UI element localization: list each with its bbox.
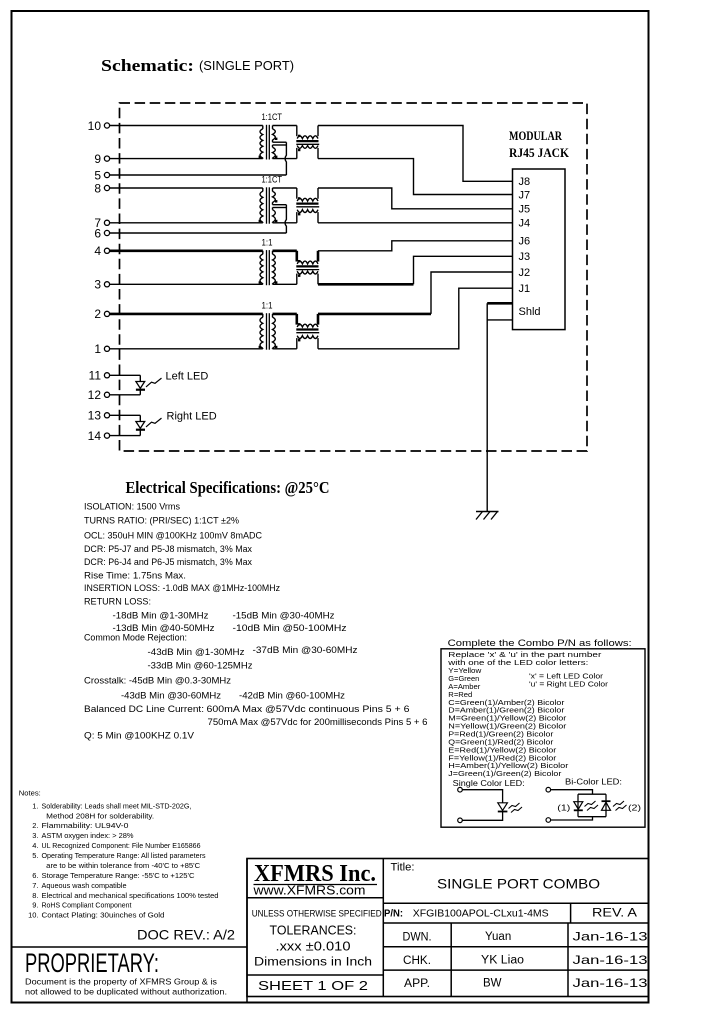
svg-text:6: 6: [94, 226, 101, 240]
line under XFMRS box: [247, 897, 383, 899]
svg-text:10: 10: [88, 119, 102, 133]
divider DWN|name: [450, 923, 452, 997]
svg-text:J7: J7: [519, 189, 531, 201]
svg-text:(1): (1): [557, 803, 570, 813]
svg-text:1:1: 1:1: [262, 300, 273, 310]
T1 secondary top winding: [273, 129, 276, 140]
svg-text:SINGLE PORT COMBO: SINGLE PORT COMBO: [437, 876, 600, 892]
svg-text:SHEET 1 OF 2: SHEET 1 OF 2: [258, 979, 368, 993]
T4 primary stubs: [262, 314, 264, 349]
LED arrow 1: [509, 803, 520, 809]
svg-text:Rise Time: 1.75ns Max.: Rise Time: 1.75ns Max.: [84, 571, 186, 581]
svg-text:Common Mode Rejection:: Common Mode Rejection:: [84, 633, 187, 643]
svg-text:-10dB Min @50-100MHz: -10dB Min @50-100MHz: [233, 623, 347, 633]
svg-text:Document is the property of XF: Document is the property of XFMRS Group …: [25, 977, 217, 986]
choke core line lower: [296, 332, 319, 334]
T2 secondary bottom phase dot: [275, 220, 277, 222]
wire secondary bottom to choke ch3: [273, 283, 297, 285]
svg-text:Dimensions in Inch: Dimensions in Inch: [254, 957, 372, 969]
LED arrow 6: [616, 805, 627, 811]
svg-text:12: 12: [88, 388, 102, 402]
pin terminal 13: [104, 413, 109, 418]
wire choke3 bottom thick segment: [318, 283, 414, 286]
choke core line lower: [296, 206, 319, 208]
T4 secondary phase dot: [275, 346, 277, 348]
LED arrow 2: [511, 807, 522, 813]
svg-text:1:1CT: 1:1CT: [262, 175, 283, 185]
svg-text:-43dB Min @1-30MHz: -43dB Min @1-30MHz: [148, 647, 245, 657]
svg-text:'u' = Right LED Color: 'u' = Right LED Color: [529, 680, 609, 689]
svg-text:Flammability: UL94V-0: Flammability: UL94V-0: [42, 821, 129, 830]
svg-text:Q: 5 Min @100KHZ 0.1V: Q: 5 Min @100KHZ 0.1V: [84, 731, 195, 741]
svg-text:RJ45 JACK: RJ45 JACK: [509, 145, 570, 160]
svg-text:Contact Plating: 30uinches of: Contact Plating: 30uinches of Gold: [42, 911, 165, 920]
LED arrow 4: [587, 805, 598, 811]
choke top phase dot: [298, 197, 300, 199]
wire pin lead bottom ch4: [110, 348, 263, 350]
T2 primary stubs: [262, 188, 264, 223]
T3 primary phase dot: [259, 281, 261, 283]
wire to J2: [431, 272, 513, 314]
wire secondary top to choke ch1: [273, 125, 297, 127]
combo P/N box: [441, 649, 645, 827]
wire choke output step: [317, 251, 320, 262]
line under CHK row: [383, 969, 648, 971]
pin terminal 5: [104, 172, 109, 177]
svg-text:J8: J8: [519, 176, 531, 188]
line under DWN row: [383, 946, 648, 948]
logo underline: [254, 884, 378, 886]
wire choke bottom output step: [317, 338, 319, 349]
svg-text:J6: J6: [519, 236, 531, 248]
choke top winding: [297, 136, 318, 139]
svg-text:2.: 2.: [32, 821, 38, 830]
wire pin lead bottom ch2: [110, 222, 263, 224]
svg-text:2: 2: [94, 307, 101, 321]
pin terminal 4: [104, 248, 109, 253]
line under P/N row: [383, 922, 648, 924]
proprietary box: [12, 946, 248, 948]
svg-text:REV. A: REV. A: [592, 906, 637, 920]
T1 center tap upper stub: [273, 141, 287, 143]
choke top phase dot: [298, 323, 300, 325]
wire choke input step: [296, 126, 298, 137]
svg-text:J2: J2: [519, 267, 531, 279]
wire pin lead top ch2: [110, 187, 263, 189]
svg-text:J4: J4: [519, 218, 531, 230]
svg-text:9: 9: [94, 152, 101, 166]
svg-text:-43dB Min @30-60MHz: -43dB Min @30-60MHz: [121, 691, 221, 701]
wire secondary bottom to choke ch1: [273, 158, 297, 160]
T2 center tap upper stub: [273, 204, 287, 206]
wire choke bottom input step: [296, 274, 298, 285]
svg-text:Left LED: Left LED: [166, 370, 209, 382]
svg-text:-42dB Min @60-100MHz: -42dB Min @60-100MHz: [239, 691, 345, 701]
svg-text:-13dB Min @40-50MHz: -13dB Min @40-50MHz: [113, 623, 215, 633]
svg-text:Complete the Combo P/N as foll: Complete the Combo P/N as follows:: [448, 638, 632, 649]
wire choke bottom input step: [296, 148, 298, 159]
T3 secondary phase dot: [275, 281, 277, 283]
transformer T1 primary winding: [260, 129, 263, 158]
svg-text:RoHS Compliant Component: RoHS Compliant Component: [42, 901, 133, 910]
svg-text:-18dB Min @1-30MHz: -18dB Min @1-30MHz: [113, 611, 209, 621]
T1 secondary top phase dot: [275, 138, 277, 140]
wire to J3: [414, 256, 513, 284]
svg-text:UL Recognized Component: File: UL Recognized Component: File Number E16…: [42, 841, 201, 850]
svg-text:J5: J5: [519, 204, 531, 216]
wire choke input step: [295, 251, 298, 262]
RJ45 jack box U1: [513, 169, 566, 330]
line above SHEET row: [247, 974, 383, 976]
svg-text:TOLERANCES:: TOLERANCES:: [270, 924, 357, 938]
svg-text:8.: 8.: [32, 891, 38, 900]
divider P/N|REV: [570, 903, 572, 923]
LED D2 right: [110, 414, 141, 416]
wire choke bottom input step: [296, 212, 298, 223]
wire choke output step: [317, 188, 319, 199]
pin terminal 14: [104, 433, 109, 438]
svg-text:J3: J3: [519, 251, 531, 263]
T2 secondary top stub: [272, 188, 274, 191]
svg-text:J=Green(1)/Green(2) Bicolor: J=Green(1)/Green(2) Bicolor: [448, 769, 562, 778]
divider name|date: [567, 923, 569, 997]
svg-text:Jan-16-13: Jan-16-13: [573, 976, 648, 990]
svg-text:750mA Max @57Vdc for 200millis: 750mA Max @57Vdc for 200milliseconds Pin…: [208, 717, 428, 727]
wire choke bottom output step: [317, 212, 319, 223]
choke top phase dot: [298, 135, 300, 137]
choke bottom winding: [297, 146, 318, 149]
wire pin lead bottom ch3: [110, 283, 263, 285]
wire pin lead top ch3: [110, 250, 263, 253]
T4 primary phase dot: [259, 346, 261, 348]
transformer T4 primary winding: [260, 317, 263, 348]
svg-text:Jan-16-13: Jan-16-13: [573, 930, 648, 944]
choke core line lower: [296, 143, 319, 145]
svg-text:TURNS RATIO: (PRI/SEC) 1:1CT ±: TURNS RATIO: (PRI/SEC) 1:1CT ±2%: [84, 516, 239, 526]
svg-text:Jan-16-13: Jan-16-13: [573, 953, 648, 967]
pin terminal 10: [104, 123, 109, 128]
T1 secondary bottom phase dot: [275, 156, 277, 158]
svg-text:(SINGLE PORT): (SINGLE PORT): [199, 58, 294, 73]
wire secondary top to choke ch3: [273, 250, 297, 253]
T1 core line 1: [266, 125, 268, 160]
title block: [247, 859, 649, 997]
choke bottom phase dot: [298, 149, 300, 151]
wire choke4 top thick segment: [318, 313, 431, 316]
svg-text:600mA Max @57Vdc continuous Pi: 600mA Max @57Vdc continuous Pins 5 + 6: [207, 704, 410, 714]
svg-text:Electrical Specifications:: Electrical Specifications: @25°C: [126, 478, 330, 497]
svg-text:Notes:: Notes:: [19, 788, 41, 797]
svg-text:7.: 7.: [32, 881, 38, 890]
wire choke input step: [295, 314, 298, 325]
choke core line upper: [296, 203, 318, 205]
svg-text:Title:: Title:: [391, 862, 415, 874]
T1 core line 2: [268, 125, 270, 160]
svg-text:Single Color LED:: Single Color LED:: [453, 778, 525, 788]
svg-text:OCL: 350uH MIN @100KHz 100mV 8: OCL: 350uH MIN @100KHz 100mV 8mADC: [84, 531, 262, 541]
svg-text:Right LED: Right LED: [167, 410, 217, 422]
svg-text:3.: 3.: [32, 831, 38, 840]
wire choke1 bottom to J7: [318, 159, 513, 195]
T2 secondary top phase dot: [275, 200, 277, 202]
wire pin lead top ch1: [110, 125, 263, 127]
svg-text:1:1CT: 1:1CT: [262, 112, 283, 122]
pin terminal 7: [104, 220, 109, 225]
pin terminal 11: [104, 373, 109, 378]
svg-text:11: 11: [89, 369, 102, 383]
svg-text:ISOLATION: 1500 Vrms: ISOLATION: 1500 Vrms: [84, 502, 180, 512]
wire pin lead top ch4: [110, 313, 263, 316]
svg-text:14: 14: [88, 429, 102, 443]
LED arrow 5: [613, 801, 624, 807]
svg-text:10.: 10.: [28, 911, 38, 920]
wire secondary bottom to choke ch2: [273, 222, 297, 224]
pin terminal 1: [104, 346, 109, 351]
choke bottom winding: [297, 271, 318, 274]
T3 core line 1: [266, 250, 268, 285]
T2 secondary bottom winding: [273, 210, 276, 223]
wire choke4 bottom to J1: [318, 288, 513, 349]
LED arrow 3: [585, 801, 596, 807]
T4 core line 2: [268, 313, 270, 350]
svg-text:DCR: P6-J4 and P6-J5 mismatch,: DCR: P6-J4 and P6-J5 mismatch, 3% Max: [84, 557, 252, 567]
wire choke bottom output step: [317, 274, 319, 285]
wire choke bottom input step: [296, 338, 298, 349]
svg-text:Method 208H for solderability.: Method 208H for solderability.: [46, 811, 154, 820]
pin terminal 12: [104, 392, 109, 397]
svg-text:4: 4: [94, 244, 101, 258]
T2 core line 2: [268, 187, 270, 223]
svg-text:J1: J1: [519, 283, 531, 295]
svg-text:1: 1: [94, 342, 101, 356]
svg-text:www.XFMRS.com: www.XFMRS.com: [252, 884, 365, 898]
choke core line upper: [296, 265, 318, 267]
svg-text:-33dB Min @60-125MHz: -33dB Min @60-125MHz: [148, 661, 253, 671]
bi-color LED symbol: [546, 787, 551, 792]
line under title row: [383, 902, 648, 904]
pin terminal 2: [104, 311, 109, 316]
wire T2 center tap to pin: [285, 205, 286, 233]
choke top winding: [297, 261, 318, 264]
pin terminal 8: [104, 185, 109, 190]
T2 primary phase dot: [259, 220, 261, 222]
chassis ground symbol: [476, 511, 499, 513]
wire choke3 top to J6: [318, 241, 513, 251]
T3 secondary winding: [273, 254, 276, 284]
choke core line lower: [296, 269, 319, 271]
pin terminal 9: [104, 156, 109, 161]
wire pin lead bottom ch1: [110, 158, 263, 160]
choke bottom winding: [297, 336, 318, 339]
bi-color diode 1 (down): [574, 802, 583, 810]
svg-text:Aqueous wash compatible: Aqueous wash compatible: [42, 881, 127, 890]
svg-text:Solderability: Leads shall mee: Solderability: Leads shall meet MIL-STD-…: [42, 801, 192, 810]
T1 primary phase dot: [259, 156, 261, 158]
svg-text:3: 3: [94, 278, 101, 292]
wire center-tap pin lead ch2: [110, 232, 287, 234]
transformer T3 primary winding: [260, 254, 263, 284]
wire choke2 top to J5: [318, 188, 513, 209]
svg-text:DWN.: DWN.: [403, 932, 432, 944]
T1 center tap lower stub: [273, 144, 287, 146]
T4 secondary top stub: [272, 314, 274, 317]
choke bottom winding: [297, 210, 318, 213]
svg-text:APP.: APP.: [404, 978, 430, 990]
svg-text:PROPRIETARY:: PROPRIETARY:: [25, 948, 159, 978]
svg-text:Shld: Shld: [519, 306, 541, 318]
svg-text:-15dB Min @30-40MHz: -15dB Min @30-40MHz: [233, 611, 335, 621]
choke top winding: [297, 198, 318, 201]
svg-text:6.: 6.: [32, 871, 38, 880]
pin terminal 3: [104, 282, 109, 287]
choke core line upper: [296, 328, 318, 330]
svg-text:5.: 5.: [32, 851, 38, 860]
wire shield to ground: [486, 303, 488, 511]
T2 center tap lower stub: [273, 207, 287, 209]
svg-text:Schematic:: Schematic:: [101, 56, 194, 75]
choke bottom phase dot: [298, 275, 300, 277]
wire T1 center tap to pin: [285, 142, 286, 175]
title block divider v1: [382, 859, 384, 997]
T2 core line 1: [266, 187, 268, 223]
svg-text:Crosstalk: -45dB Min @0.3-30M: Crosstalk: -45dB Min @0.3-30MHz: [84, 676, 231, 686]
svg-text:ASTM oxygen index: > 28%: ASTM oxygen index: > 28%: [42, 831, 134, 840]
svg-text:Operating Temperature Range: A: Operating Temperature Range: All listed …: [42, 851, 206, 860]
svg-text:UNLESS OTHERWISE SPECIFIED: UNLESS OTHERWISE SPECIFIED: [252, 909, 382, 920]
LED D1 left: [110, 374, 141, 376]
wire shield stub lower: [487, 319, 512, 321]
svg-text:Yuan: Yuan: [485, 931, 511, 943]
wire secondary top to choke ch4: [273, 313, 297, 316]
svg-text:-37dB Min @30-60MHz: -37dB Min @30-60MHz: [253, 645, 358, 655]
svg-text:9.: 9.: [32, 901, 38, 910]
T3 primary stubs: [262, 251, 264, 284]
T3 core line 2: [268, 250, 270, 285]
wire choke2 bottom to J4: [318, 222, 513, 224]
wire shield stub upper: [487, 302, 512, 305]
choke core line upper: [296, 140, 318, 142]
svg-text:Storage Temperature Range: -55: Storage Temperature Range: -55'C to +125…: [42, 871, 196, 880]
single color LED symbol: [458, 787, 463, 792]
svg-text:not allowed to be duplicated w: not allowed to be duplicated without aut…: [25, 987, 227, 996]
T4 secondary winding: [273, 317, 276, 348]
svg-text:.xxx ±0.010: .xxx ±0.010: [276, 940, 351, 954]
svg-text:Electrical and mechanical spec: Electrical and mechanical specifications…: [42, 891, 219, 900]
wire secondary bottom to choke ch4: [273, 348, 297, 350]
svg-text:MODULAR: MODULAR: [509, 128, 562, 143]
svg-text:RETURN LOSS:: RETURN LOSS:: [84, 597, 151, 607]
svg-text:8: 8: [94, 181, 101, 195]
svg-text:CHK.: CHK.: [403, 955, 431, 967]
choke bottom phase dot: [298, 339, 300, 341]
choke top winding: [297, 324, 318, 327]
T2 secondary top winding: [273, 191, 276, 202]
T1 primary stubs: [262, 126, 264, 159]
svg-text:4.: 4.: [32, 841, 38, 850]
choke top phase dot: [298, 260, 300, 262]
wire choke output step: [317, 126, 319, 137]
svg-text:5: 5: [94, 168, 101, 182]
svg-text:INSERTION LOSS: -1.0dB MAX @1M: INSERTION LOSS: -1.0dB MAX @1MHz-100MHz: [84, 583, 280, 593]
svg-text:BW: BW: [483, 977, 502, 989]
choke bottom phase dot: [298, 213, 300, 215]
T3 secondary top stub: [272, 251, 274, 254]
wire choke output step: [317, 314, 320, 325]
svg-text:1.: 1.: [32, 801, 38, 810]
wire choke1 top to J8: [318, 126, 513, 182]
svg-text:1:1: 1:1: [262, 237, 273, 247]
transformer T2 primary winding: [260, 191, 263, 222]
svg-text:Bi-Color LED:: Bi-Color LED:: [565, 777, 622, 787]
svg-text:YK Liao: YK Liao: [481, 954, 524, 966]
svg-text:XFGIB100APOL-CLxu1-4MS: XFGIB100APOL-CLxu1-4MS: [413, 908, 549, 920]
svg-text:P/N:: P/N:: [384, 909, 403, 920]
dashed module boundary box: [120, 103, 588, 451]
T1 secondary bottom winding: [273, 147, 276, 158]
T4 core line 1: [266, 313, 268, 350]
svg-text:DOC REV.: A/2: DOC REV.: A/2: [137, 927, 235, 943]
pin terminal 6: [104, 230, 109, 235]
wire secondary top to choke ch2: [273, 187, 297, 189]
svg-text:DCR: P5-J7 and P5-J8 mismatch,: DCR: P5-J7 and P5-J8 mismatch, 3% Max: [84, 544, 252, 554]
wire choke bottom output step: [317, 148, 319, 159]
bi-color diode 2 (up): [602, 802, 611, 810]
svg-text:(2): (2): [628, 803, 641, 813]
wire center-tap pin lead ch1: [110, 174, 287, 176]
T1 secondary top stub: [272, 126, 274, 129]
wire choke input step: [296, 188, 298, 199]
svg-text:are to be within tolerance fro: are to be within tolerance from -40'C to…: [46, 861, 201, 870]
svg-text:13: 13: [88, 409, 102, 423]
svg-text:Balanced DC Line Current:: Balanced DC Line Current:: [84, 704, 204, 714]
